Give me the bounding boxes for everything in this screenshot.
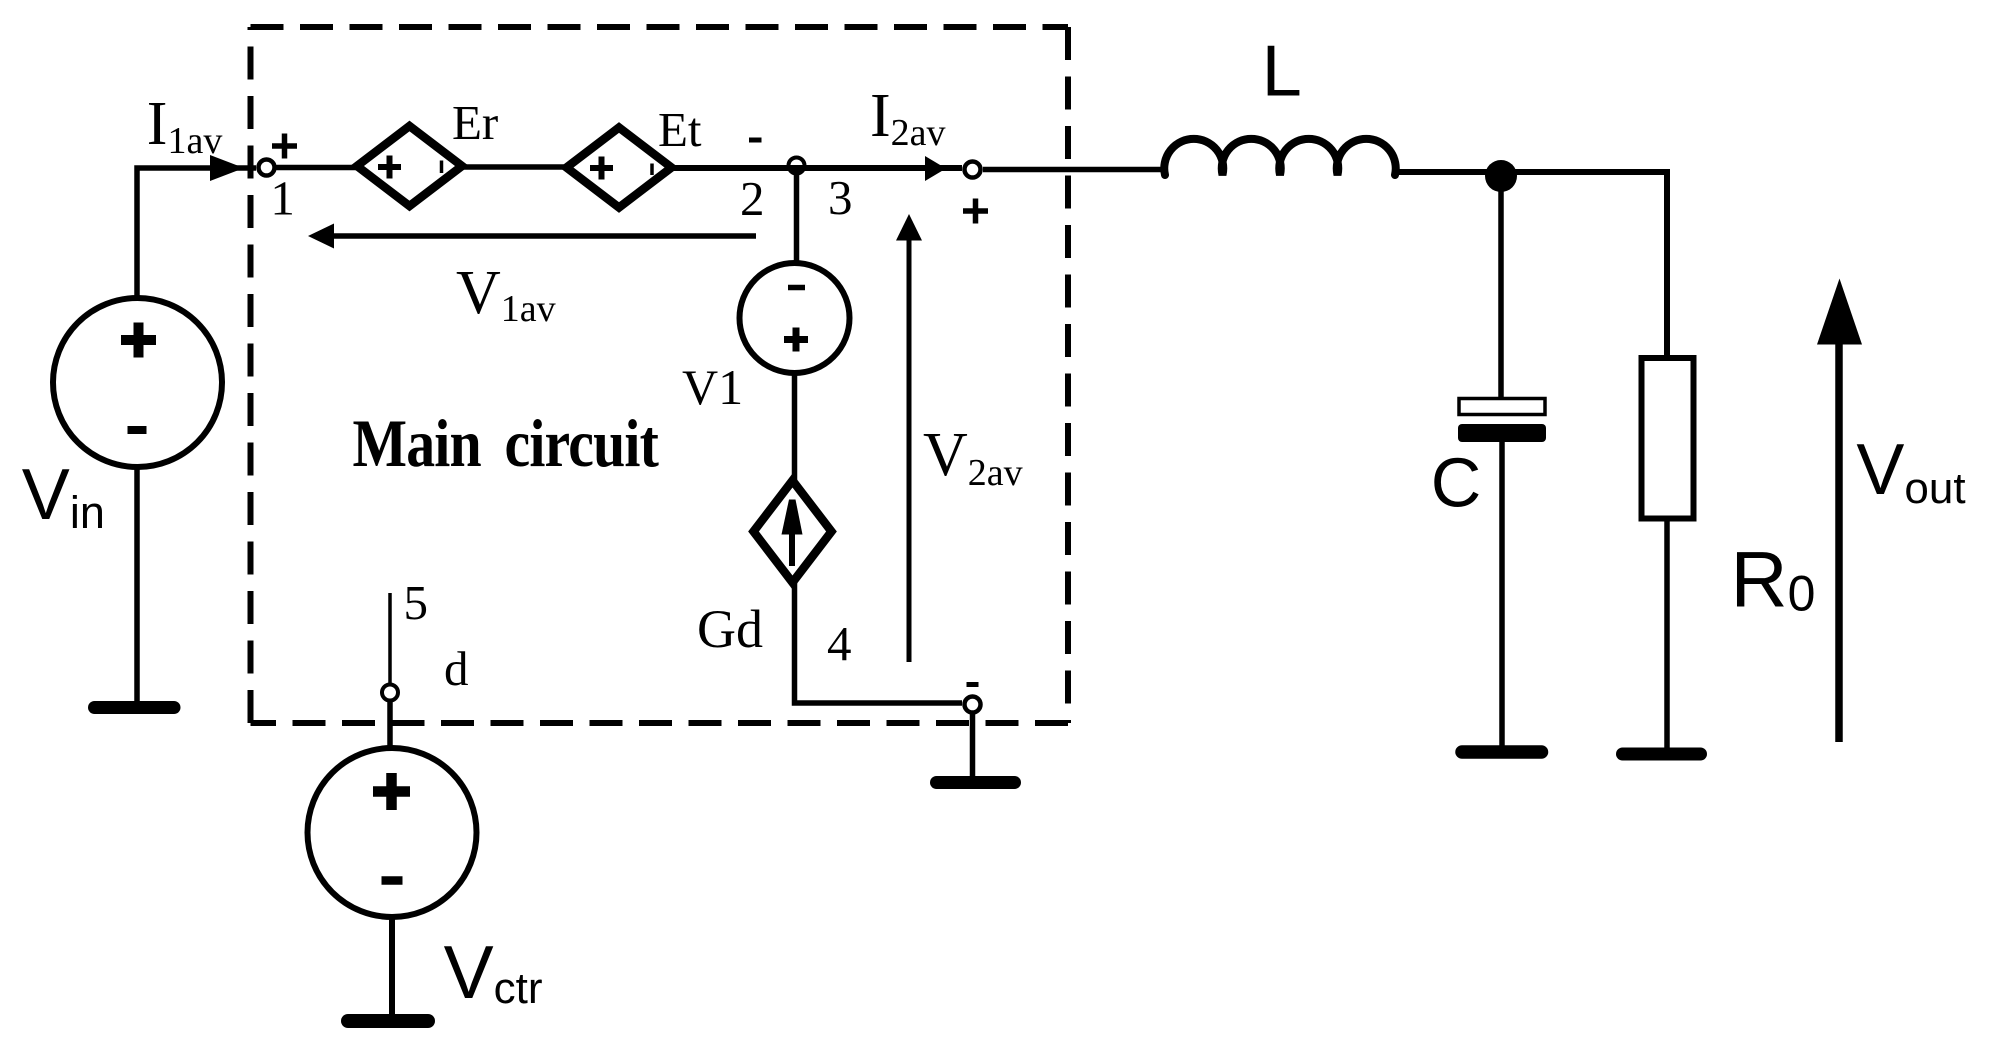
Vout arrow line — [1835, 342, 1843, 742]
wire Et to node 2 to node 3 — [666, 165, 962, 171]
Vctr minus sign — [382, 876, 403, 885]
ground (Vctr) — [348, 1014, 428, 1028]
node 3 — [965, 162, 981, 178]
wire Vin bottom to ground — [134, 465, 140, 703]
svg-text:1: 1 — [270, 171, 295, 226]
svg-text:Main circuit: Main circuit — [353, 406, 659, 481]
source V1 — [740, 263, 850, 373]
main circuit dashed box — [251, 27, 1069, 723]
arrowhead I2av — [925, 156, 946, 181]
Er plus sign — [378, 156, 401, 179]
V1 plus sign — [784, 328, 808, 352]
wire R0 to ground — [1664, 518, 1670, 749]
dependent source Er — [357, 126, 462, 206]
source Vctr — [308, 748, 477, 917]
dependent source Gd — [754, 481, 832, 583]
V1 minus sign — [788, 285, 805, 291]
wire Gd to node 4 corner — [795, 579, 963, 703]
junction dot — [1485, 160, 1517, 192]
wire pin 5 — [388, 593, 392, 683]
arrowhead Vout — [1817, 279, 1862, 345]
Vin plus sign — [121, 323, 156, 358]
plus label at node 3 (V2av +) — [963, 199, 988, 224]
svg-text:C: C — [1431, 444, 1482, 522]
arrowhead V1av — [308, 224, 334, 249]
arrowhead I1av — [210, 155, 244, 181]
V2av arrow line — [907, 238, 912, 662]
source Vin — [53, 298, 222, 467]
plus label at node 1 — [272, 134, 297, 159]
svg-text:4: 4 — [827, 616, 852, 671]
node d — [382, 685, 398, 701]
wire capacitor to ground — [1499, 440, 1505, 748]
svg-text:Et: Et — [658, 102, 702, 157]
V1av arrow line — [332, 233, 756, 239]
Et plus sign — [590, 157, 613, 180]
svg-text:Gd: Gd — [697, 599, 763, 659]
svg-text:Er: Er — [452, 95, 498, 150]
svg-text:L: L — [1262, 32, 1302, 112]
Er minus tick — [440, 161, 444, 174]
wire node 1 to Er — [277, 165, 357, 171]
capacitor C top plate — [1459, 399, 1545, 415]
ground (node 4) — [937, 776, 1015, 789]
node 4 — [965, 697, 981, 713]
resistor R0 body — [1642, 358, 1694, 519]
ground (C) — [1462, 745, 1542, 759]
wire Er to Et — [463, 164, 567, 170]
wire node 4 to ground — [970, 714, 976, 778]
svg-text:2: 2 — [740, 171, 765, 226]
wire junction to capacitor — [1498, 175, 1504, 400]
Gd inner arrow — [782, 500, 803, 567]
wire Vctr to ground — [389, 915, 395, 1016]
dependent source Et — [567, 128, 672, 208]
wire V1 to Gd — [792, 372, 798, 484]
wire node d to Vctr — [387, 700, 393, 750]
inductor L coil — [1164, 139, 1396, 175]
arrowhead V2av — [896, 214, 922, 241]
Vin minus sign — [128, 426, 147, 434]
svg-text:d: d — [444, 641, 469, 696]
minus label at node 2 — [749, 138, 762, 143]
svg-text:V1: V1 — [682, 359, 743, 415]
Et minus tick — [650, 164, 654, 176]
minus label at node 4 (V2av -) — [967, 682, 979, 687]
wire node 3 to inductor — [983, 167, 1163, 173]
wire node 2 down to V1 — [794, 166, 800, 264]
ground (Vin) — [95, 701, 175, 714]
Vctr plus sign — [373, 773, 410, 810]
wire Vin to node 1 — [137, 168, 256, 300]
svg-text:3: 3 — [828, 170, 853, 225]
capacitor C bottom plate — [1458, 424, 1546, 442]
ground (R0) — [1623, 748, 1701, 761]
node 2 — [789, 158, 805, 174]
node 1 — [259, 160, 275, 176]
wire inductor to R0 corner — [1396, 172, 1667, 360]
svg-text:5: 5 — [404, 575, 429, 630]
